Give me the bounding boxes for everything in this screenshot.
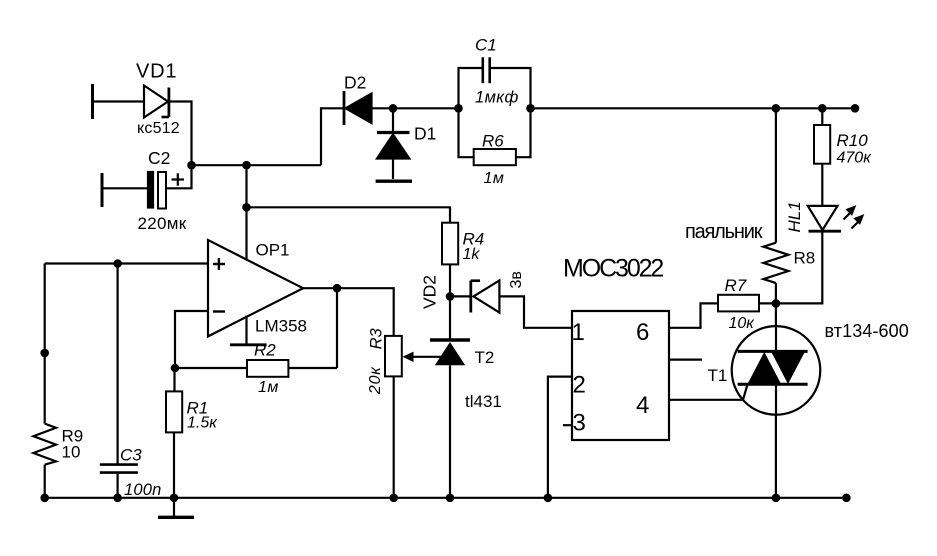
resistor R6	[459, 108, 531, 165]
svg-text:VD1: VD1	[136, 61, 177, 83]
svg-text:кс512: кс512	[137, 120, 180, 137]
resistor R4	[442, 223, 458, 265]
wire op-amp output	[303, 287, 337, 289]
node	[772, 494, 781, 503]
resistor R7	[669, 295, 776, 328]
svg-text:T2: T2	[475, 348, 495, 367]
resistor R1	[166, 368, 182, 498]
svg-text:1мкф: 1мкф	[475, 88, 519, 106]
wire	[450, 295, 471, 297]
svg-text:R10: R10	[837, 131, 869, 150]
svg-text:6: 6	[636, 319, 649, 346]
wire	[44, 465, 46, 498]
wire to D2	[321, 108, 344, 165]
node	[333, 284, 342, 293]
wire main mid	[192, 164, 322, 166]
svg-text:D2: D2	[344, 72, 366, 92]
svg-text:D1: D1	[414, 124, 436, 144]
svg-text:OP1: OP1	[256, 241, 290, 260]
capacitor C2	[148, 172, 184, 209]
svg-text:LM358: LM358	[255, 317, 307, 336]
wire	[169, 102, 192, 166]
wire	[776, 231, 822, 303]
svg-text:C1: C1	[475, 36, 497, 55]
wire noninverting input	[45, 262, 208, 264]
node	[171, 364, 180, 373]
node	[446, 494, 455, 503]
node	[851, 104, 860, 113]
terminal input B	[101, 173, 104, 207]
svg-text:R8: R8	[794, 249, 816, 268]
capacitor C1	[459, 57, 531, 108]
svg-text:R6: R6	[482, 131, 504, 150]
svg-text:2: 2	[573, 372, 586, 399]
node	[113, 494, 122, 503]
node	[772, 104, 781, 113]
stub pin5	[669, 359, 702, 361]
op-amp OP1	[208, 240, 303, 345]
wire left column	[44, 264, 46, 424]
svg-text:470к: 470к	[837, 150, 873, 167]
svg-text:R3: R3	[368, 327, 386, 349]
zener diode VD2	[471, 281, 500, 313]
ground	[158, 498, 194, 518]
node	[818, 104, 827, 113]
svg-text:R7: R7	[725, 276, 747, 295]
capacitor C3	[100, 264, 138, 498]
node	[454, 104, 463, 113]
optocoupler U1 MOC3022	[572, 311, 669, 440]
resistor R8	[763, 243, 788, 283]
node	[772, 299, 781, 308]
wire main right	[531, 107, 858, 109]
svg-text:вт134-600: вт134-600	[825, 321, 909, 341]
resistor R9	[33, 424, 56, 465]
node	[113, 259, 122, 268]
node	[544, 494, 553, 503]
wire	[775, 283, 777, 303]
wire	[393, 376, 395, 497]
svg-text:HL1: HL1	[785, 201, 804, 232]
wire	[393, 107, 459, 109]
svg-text:паяльник: паяльник	[685, 221, 763, 243]
terminal input A	[91, 84, 94, 119]
svg-text:1k: 1k	[463, 246, 481, 263]
wire	[775, 108, 777, 242]
svg-text:10: 10	[62, 443, 81, 462]
node	[842, 494, 851, 503]
svg-text:3: 3	[573, 409, 586, 436]
wire	[372, 107, 394, 109]
resistor R10	[814, 125, 830, 164]
wire	[93, 100, 145, 102]
wire	[337, 288, 394, 336]
node lone	[40, 349, 49, 358]
svg-text:C2: C2	[148, 148, 170, 168]
svg-text:20к: 20к	[367, 366, 384, 395]
wire	[821, 164, 823, 206]
TL431 T2	[430, 296, 470, 497]
svg-text:220мк: 220мк	[138, 214, 187, 233]
wire horizontal to R4	[247, 207, 451, 222]
triac T1	[732, 326, 821, 415]
wire	[245, 165, 247, 207]
svg-text:100n: 100n	[124, 481, 162, 499]
wire pin4 gate	[669, 384, 748, 400]
diode D2	[344, 91, 372, 125]
wire	[821, 108, 823, 125]
wire pin2	[548, 377, 572, 498]
resistor R2	[175, 288, 337, 377]
svg-text:R2: R2	[254, 341, 276, 360]
diode D1	[376, 108, 412, 181]
potentiometer R3	[385, 336, 447, 377]
wire	[102, 187, 148, 189]
node junction VD1/C2	[187, 161, 196, 170]
node	[446, 292, 455, 301]
svg-text:C3: C3	[120, 445, 142, 464]
svg-text:VD2: VD2	[420, 275, 440, 309]
svg-text:T1: T1	[708, 366, 728, 385]
wire	[166, 165, 192, 188]
stub pin3	[563, 424, 572, 426]
node	[242, 161, 251, 170]
node	[526, 104, 535, 113]
wire inverting input	[175, 311, 208, 368]
wire bottom rail	[45, 497, 847, 499]
svg-text:10к: 10к	[729, 315, 756, 332]
svg-text:1м: 1м	[258, 379, 279, 396]
svg-text:MOC3022: MOC3022	[563, 254, 663, 282]
wire	[449, 264, 451, 296]
svg-text:1: 1	[572, 319, 585, 346]
wire V+ stub	[245, 207, 247, 264]
node	[40, 494, 49, 503]
LED HL1	[808, 205, 865, 231]
wire pin1	[499, 296, 572, 327]
wire	[775, 303, 777, 497]
svg-text:1.5к: 1.5к	[187, 414, 218, 431]
node	[170, 494, 179, 503]
zener diode VD1	[144, 86, 169, 118]
svg-text:4: 4	[636, 392, 649, 419]
svg-text:tl431: tl431	[465, 392, 502, 411]
node	[389, 494, 398, 503]
svg-text:3в: 3в	[508, 271, 525, 288]
node	[389, 104, 398, 113]
svg-text:1м: 1м	[484, 170, 505, 187]
node	[242, 203, 251, 212]
